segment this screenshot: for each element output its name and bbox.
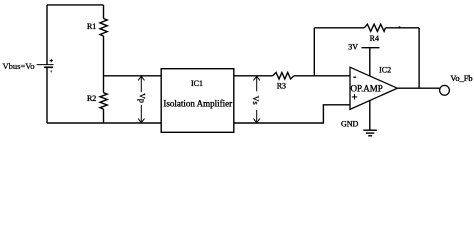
opamp inverting input minus sign: [353, 76, 356, 78]
wire R2 bottom lead: [103, 109, 105, 123]
wire IC1 output top: [234, 75, 273, 77]
wire feedback left vertical to inverting node: [313, 28, 315, 76]
svg-text:R4: R4: [370, 34, 379, 43]
resistor R3: [273, 73, 294, 80]
svg-text:Isolation Amplifier: Isolation Amplifier: [163, 98, 232, 108]
ground: [363, 130, 377, 136]
wire feedback top right segment: [386, 27, 420, 29]
svg-text:Vp: Vp: [137, 93, 146, 103]
wire R3 to opamp inverting input: [294, 75, 350, 77]
svg-text:R3: R3: [277, 81, 286, 90]
net Vp arrow: [138, 76, 144, 122]
3V supply symbol: [362, 48, 380, 76]
node A wire to IC1: [104, 75, 162, 77]
wire top rail: [47, 4, 104, 6]
svg-text:Vbus=Vo: Vbus=Vo: [3, 61, 35, 71]
wire opamp output: [397, 87, 439, 89]
svg-text:Vs: Vs: [251, 96, 260, 105]
svg-text:IC2: IC2: [379, 66, 391, 75]
junction nub on feedback wire: [399, 26, 401, 28]
svg-text:IC1: IC1: [191, 79, 203, 88]
wire opamp bottom supply to ground: [369, 100, 371, 130]
svg-text:R1: R1: [87, 22, 96, 31]
wire R1 to node: [103, 36, 105, 93]
svg-text:R2: R2: [87, 94, 96, 103]
svg-text:OP.AMP: OP.AMP: [351, 84, 383, 94]
svg-text:3V: 3V: [348, 42, 358, 51]
wire feedback top left segment: [314, 27, 364, 29]
wire left vertical lower: [46, 67, 48, 123]
svg-text:Vo_Fb: Vo_Fb: [450, 74, 472, 83]
resistor R2: [100, 93, 107, 109]
resistor R4: [364, 24, 385, 31]
wire bottom rail left: [47, 122, 161, 124]
net Vs arrow: [254, 76, 260, 122]
resistor R1: [100, 19, 107, 37]
wire feedback right vertical: [418, 28, 420, 88]
op-amp IC2 triangle: [350, 67, 397, 109]
wire R1 top lead: [103, 5, 105, 19]
svg-text:GND: GND: [341, 120, 359, 129]
voltage source battery Vbus: [37, 59, 54, 73]
wire IC1 output bottom to opamp noninverting input: [234, 105, 350, 123]
wire left vertical upper: [46, 5, 48, 65]
terminal Vo_Fb circle: [440, 85, 450, 95]
IC1 isolation amplifier box: [161, 69, 234, 133]
opamp noninverting input plus sign: [352, 94, 357, 99]
